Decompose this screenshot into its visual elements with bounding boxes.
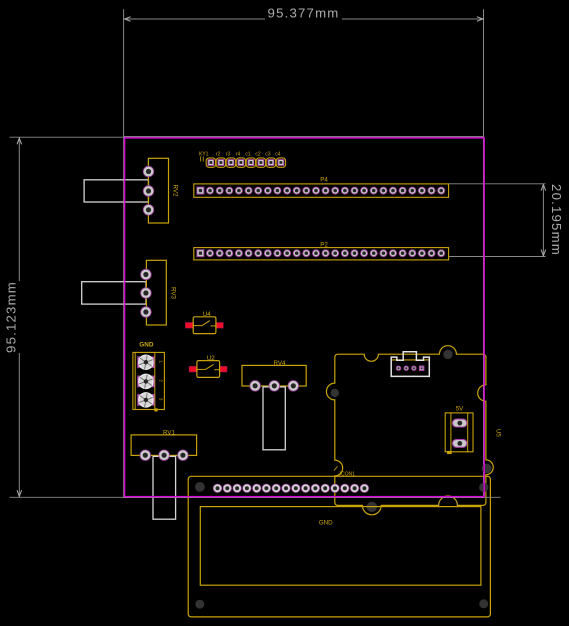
potentiometer RV4 [242,360,306,450]
svg-text:GND: GND [139,341,154,348]
P2 pad 4 [225,249,233,257]
LCD mounting hole bottom-left [195,600,204,609]
connector KY1 labels [199,152,281,162]
P2 pad 19 [370,249,378,257]
connector P2 outline [194,241,449,260]
JCON1 pad 11 [311,484,320,493]
svg-text:U5: U5 [495,429,502,437]
P2 pad 18 [360,249,368,257]
P2 pad 5 [235,249,243,257]
P2 pad 15 [331,249,339,257]
terminal block GND pad 3 [138,393,154,407]
P4 pad 15 [331,187,339,195]
P4 pad 24 [418,187,426,195]
RV1 pad 1 [140,450,151,461]
P2 pad 8 [264,249,272,257]
switch U2 [189,355,227,378]
RV4 pad 1 [249,380,260,391]
P2 pad 6 [245,249,253,257]
svg-text:r2: r2 [216,152,221,158]
P4 pad 3 [216,187,224,195]
RV4 pad 2 [269,380,280,391]
svg-text:RV2: RV2 [172,185,179,197]
P4 pad 19 [370,187,378,195]
svg-text:P2: P2 [320,241,328,248]
KY1 pad 4 [236,158,245,167]
J1 pad 3 [411,366,416,371]
P2 pad 22 [399,249,407,257]
dimension left 95.123mm line [18,138,20,281]
LCD mounting hole top-right [479,483,488,492]
svg-text:c2: c2 [255,152,261,158]
P4 pad 5 [235,187,243,195]
P4 pad 11 [293,187,301,195]
JCON1 pad 8 [281,484,290,493]
P2 pad 7 [254,249,262,257]
P4 pad 10 [283,187,291,195]
node drawings-outline (gray user-layer board rectangle) [124,137,484,498]
KY1 pad 2 [216,158,225,167]
LCD module DS1 outline [188,476,490,617]
JCON1 pad 10 [301,484,310,493]
P4 pad 20 [379,187,387,195]
P2 pad 23 [408,249,416,257]
svg-text:RV4: RV4 [274,360,286,367]
P4 pad 23 [408,187,416,195]
KY1 pad 3 [226,158,235,167]
JCON1 pad 5 [252,484,261,493]
P4 pad 2 [206,187,214,195]
dimension left 95.123mm extension line bottom [10,496,501,498]
JCON1 pad 14 [340,484,349,493]
LCD mounting hole bottom-right [479,599,488,608]
potentiometer RV1 [131,430,197,520]
JCON1 pad 16 [360,484,369,493]
RV3 pad 2 [140,287,151,298]
U5 mounting hole left [331,389,339,397]
potentiometer RV3 [82,260,177,325]
dimension right 20.195mm extension line bottom [449,256,546,258]
svg-text:95.377mm: 95.377mm [268,6,340,21]
P4 pad 26 [437,187,445,195]
P2 pad 24 [418,249,426,257]
RV1 pad 2 [158,450,169,461]
JCON1 pad 12 [321,484,330,493]
J1 pad 4 (square) [419,366,425,372]
P2 pad 9 [273,249,281,257]
P2 pad 12 [302,249,310,257]
JCON1 pad 6 [262,484,271,493]
P4 pad 22 [399,187,407,195]
LCD mounting hole top-left [195,482,205,492]
svg-text:r3: r3 [226,152,231,158]
KY1 pad 7 [266,158,275,167]
P2 pad 21 [389,249,397,257]
P4 pad 13 [312,187,320,195]
P2 pad 17 [351,249,359,257]
P2 pad 3 [216,249,224,257]
JCON1 pad 3 [233,484,242,493]
P2 pad 26 [437,249,445,257]
P4 pad 7 [254,187,262,195]
board outline Edge.Cuts [125,138,485,497]
svg-text:c1: c1 [245,152,251,158]
P2 pad 11 [293,249,301,257]
connector 5V outline [445,413,473,454]
svg-text:RV3: RV3 [169,287,176,299]
JCON1 pad 13 [330,484,339,493]
dimension top 95.377mm line [124,18,265,20]
connector JCON1 label [334,467,355,478]
U5 mounting hole top [443,350,452,359]
RV4 pad 3 [288,380,299,391]
P2 pad 13 [312,249,320,257]
5V pad 2 (oval) [453,439,467,447]
RV2 pad 3 [143,204,154,215]
P2 pad 14 [322,249,330,257]
LCD display window [200,507,481,586]
svg-text:GND: GND [319,520,333,527]
RV1 pad 3 [177,450,188,461]
svg-text:5V: 5V [456,405,464,412]
JCON1 pad 4 [242,484,251,493]
terminal block GND pad 2 [138,374,154,388]
P4 pad 8 [264,187,272,195]
svg-text:P4: P4 [320,177,328,184]
KY1 pad 6 [256,158,265,167]
svg-text:c3: c3 [265,152,271,158]
P4 pad 9 [273,187,281,195]
P2 pad 10 [283,249,291,257]
terminal block GND outline [133,352,165,411]
J1 pad 1 [396,366,401,371]
P4 pad 1 (square) [196,187,204,195]
P4 pad 21 [389,187,397,195]
P2 pad 16 [341,249,349,257]
connector J1 (4-pin, white fab outline) [391,352,429,377]
KY1 pad 5 [246,158,255,167]
module U5 outline [326,346,493,515]
KY1 pad 1 [206,158,215,167]
JCON1 pad 2 [223,484,232,493]
P4 pad 4 [225,187,233,195]
svg-text:RV1: RV1 [163,430,175,437]
P2 pad 2 [206,249,214,257]
JCON1 pad 9 [291,484,300,493]
P4 pad 12 [302,187,310,195]
switch U4 [185,311,223,334]
terminal block GND pad 1 [138,355,154,369]
5V pad 1 (oval) [453,419,467,427]
P2 pad 25 [428,249,436,257]
svg-text:r4: r4 [236,152,241,158]
J1 pad 2 [404,366,409,371]
dimension top 95.377mm extension line left [123,9,125,136]
P4 pad 16 [341,187,349,195]
KY1 pad 8 [276,158,285,167]
RV2 pad 1 [143,166,154,177]
P4 pad 17 [351,187,359,195]
dimension right 20.195mm extension line top [449,183,546,185]
P2 pad 20 [379,249,387,257]
P2 pad 1 (square) [196,249,204,257]
RV2 pad 2 [143,185,154,196]
dimension right 20.195mm line [542,184,544,256]
P4 pad 25 [428,187,436,195]
U5 mounting hole bottom [367,502,377,512]
P4 pad 18 [360,187,368,195]
JCON1 pad 1 [213,484,222,493]
svg-text:95.123mm: 95.123mm [4,281,19,353]
potentiometer RV2 [84,158,178,223]
dimension top 95.377mm extension line right [483,9,485,136]
dimension left 95.123mm extension line top [10,136,484,138]
svg-text:20.195mm: 20.195mm [549,184,564,256]
connector P4 outline [194,177,449,198]
U5 mounting hole right [482,464,492,474]
JCON1 pad 15 [350,484,359,493]
RV3 pad 1 [140,269,151,280]
svg-text:JCON1: JCON1 [339,471,356,477]
RV3 pad 3 [140,306,151,317]
svg-text:c4: c4 [275,152,281,158]
P4 pad 6 [245,187,253,195]
P4 pad 14 [322,187,330,195]
JCON1 pad 7 [272,484,281,493]
